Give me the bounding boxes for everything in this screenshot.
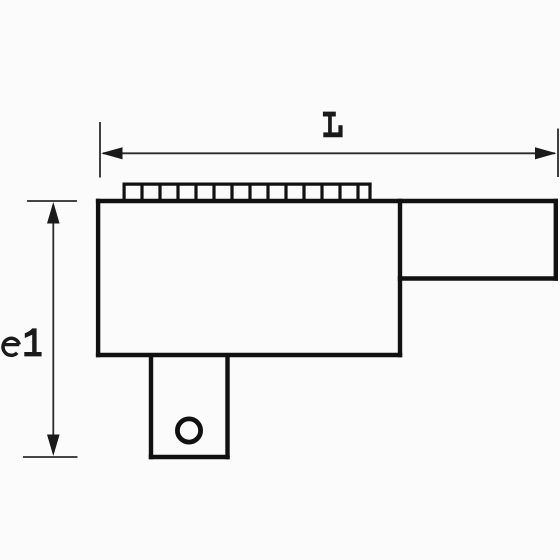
extension line left of dimension L <box>99 122 101 178</box>
knurl tooth divider 3 <box>176 184 179 201</box>
knurl strip right border <box>368 183 371 202</box>
knurl tooth divider 13 <box>356 184 359 201</box>
extension tick bottom of dimension e1 <box>23 456 78 458</box>
square drive right edge <box>225 353 229 459</box>
extension tick top of dimension e1 <box>27 200 77 202</box>
knurl tooth divider 1 <box>140 184 143 201</box>
arrowhead right of L <box>535 147 557 159</box>
dimension line L <box>103 152 555 154</box>
knurl tooth divider 5 <box>212 184 215 201</box>
knurl tooth divider 6 <box>230 184 233 201</box>
label e1 <box>3 338 20 355</box>
extension right edge <box>554 199 558 281</box>
arrowhead down of e1 <box>47 435 60 457</box>
square drive left edge <box>149 353 153 459</box>
knurl tooth divider 2 <box>158 184 161 201</box>
knurl tooth divider 12 <box>338 184 341 201</box>
label L <box>323 112 343 138</box>
drive hole circle <box>177 419 200 442</box>
body top edge <box>96 199 558 203</box>
arrowhead left of L <box>101 147 123 159</box>
extension bottom edge <box>398 276 558 280</box>
knurl tooth divider 9 <box>284 184 287 201</box>
body bottom edge <box>96 353 402 357</box>
body right edge <box>398 199 402 357</box>
knurl tooth divider 7 <box>248 184 251 201</box>
knurl tooth divider 10 <box>302 184 305 201</box>
extension line right of dimension L <box>557 129 559 178</box>
arrowhead up of e1 <box>47 202 60 224</box>
knurl strip top line <box>123 183 372 186</box>
body left edge <box>96 199 100 357</box>
knurl tooth divider 4 <box>194 184 197 201</box>
square drive bottom edge <box>149 455 230 459</box>
knurl strip left border <box>122 183 125 202</box>
knurl tooth divider 8 <box>266 184 269 201</box>
knurl tooth divider 11 <box>320 184 323 201</box>
dimension line e1 <box>52 205 54 453</box>
